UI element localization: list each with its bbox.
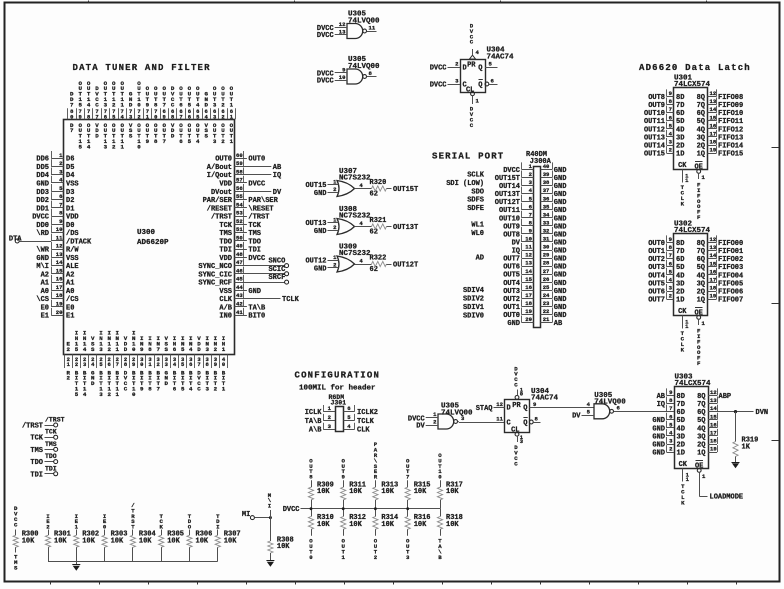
svg-text:A0: A0 <box>66 288 74 296</box>
J300A pin 19 (OUT0) <box>503 308 533 321</box>
svg-text:12: 12 <box>710 90 717 97</box>
J300A pin 33 (GND) <box>541 219 567 232</box>
svg-text:3: 3 <box>104 143 108 150</box>
U305D pin 4 input <box>587 401 591 408</box>
svg-text:/CS: /CS <box>66 296 79 304</box>
svg-text:Q: Q <box>478 65 482 73</box>
svg-text:0: 0 <box>520 391 523 398</box>
svg-text:17: 17 <box>710 430 717 437</box>
svg-text:10K: 10K <box>224 537 237 545</box>
svg-text:14: 14 <box>56 259 63 266</box>
svg-text:3: 3 <box>205 385 209 392</box>
svg-text:6D: 6D <box>676 110 684 118</box>
svg-text:10K: 10K <box>414 521 427 529</box>
U300 pin 25 (IN13) <box>99 330 103 398</box>
svg-text:OUT9: OUT9 <box>503 223 520 231</box>
svg-text:6Q: 6Q <box>697 110 705 118</box>
svg-text:ALE: ALE <box>66 263 79 271</box>
svg-text:5: 5 <box>75 391 79 398</box>
svg-text:D4: D4 <box>66 172 74 180</box>
svg-text:SCIC: SCIC <box>268 266 285 274</box>
U304B pin 9 (Q) output wire to U305D <box>529 401 594 408</box>
svg-text:A/Bout: A/Bout <box>207 164 232 172</box>
svg-text:TDI: TDI <box>248 247 261 255</box>
svg-text:FIFO03: FIFO03 <box>718 264 743 272</box>
svg-text:SERIAL PORT: SERIAL PORT <box>432 152 504 162</box>
svg-text:40: 40 <box>543 163 550 170</box>
gate U308 NC7SZ32 <box>337 206 371 235</box>
svg-text:T: T <box>131 524 135 531</box>
svg-text:6: 6 <box>179 101 183 108</box>
svg-text:2: 2 <box>221 101 225 108</box>
svg-text:F: F <box>697 360 701 367</box>
svg-text:8Q: 8Q <box>697 94 705 102</box>
svg-text:4: 4 <box>196 101 200 108</box>
J300A pin 21 (AB) <box>541 316 564 329</box>
U305D pin 6 output wire to U303 6D <box>614 404 667 411</box>
svg-text:OE: OE <box>694 163 702 171</box>
J300A pin 35 (GND) <box>541 203 567 216</box>
U304 pin 4 (PR) from DVCC <box>470 23 480 60</box>
J300A pin 37 (GND) <box>541 187 567 200</box>
J300A pin 13 (OUT6) <box>503 259 533 272</box>
svg-text:36: 36 <box>543 195 550 202</box>
svg-text:5D: 5D <box>676 264 684 272</box>
svg-text:1: 1 <box>116 391 120 398</box>
U300 bottom pin separators <box>65 354 228 368</box>
svg-text:0: 0 <box>137 143 141 150</box>
svg-text:4: 4 <box>189 346 193 353</box>
U303 pin 16 (4Q) stub <box>697 421 717 434</box>
svg-text:18: 18 <box>710 139 717 146</box>
svg-text:7: 7 <box>179 113 182 120</box>
svg-text:4D: 4D <box>676 272 684 280</box>
svg-text:K: K <box>681 346 685 353</box>
svg-text:18: 18 <box>525 300 532 307</box>
svg-text:22: 22 <box>543 308 550 315</box>
J300A pin 30 (GND) <box>541 243 567 256</box>
svg-text:38: 38 <box>543 179 550 186</box>
svg-text:F: F <box>697 214 701 221</box>
U300 pin 36 (IN4) <box>189 335 193 392</box>
svg-text:15: 15 <box>525 276 532 283</box>
svg-text:OUT4: OUT4 <box>648 272 665 280</box>
J300A pin 28 (GND) <box>541 259 567 272</box>
U300 pin 41 (IN0) <box>219 308 265 321</box>
svg-text:OUT15: OUT15 <box>644 151 665 159</box>
resistor R308 10K (M\I) <box>268 492 294 561</box>
svg-text:GND: GND <box>554 240 567 248</box>
resistor R311 10K (OUT9 top) <box>341 457 366 508</box>
wire DTA to U300 pin 11 <box>19 241 51 243</box>
svg-text:31: 31 <box>543 236 550 243</box>
U300 pin 75 (OUT12) <box>112 80 116 150</box>
svg-text:9: 9 <box>140 346 144 353</box>
svg-text:19: 19 <box>525 308 532 315</box>
U300 pin 67 (OUT6) <box>179 85 183 145</box>
svg-text:37: 37 <box>543 187 550 194</box>
J300A pin 5 (OUT12T) <box>495 195 534 208</box>
svg-text:GND: GND <box>652 433 665 441</box>
J300A pin 27 (GND) <box>541 267 567 280</box>
svg-text:GND: GND <box>554 248 567 256</box>
svg-text:6: 6 <box>189 361 192 368</box>
svg-text:15: 15 <box>710 114 717 121</box>
svg-text:AB: AB <box>554 320 563 328</box>
svg-text:GND: GND <box>554 215 567 223</box>
U308 pin 2 (GND) <box>314 224 339 236</box>
U302 pin 8 (7D) OUT1 <box>648 244 684 257</box>
J300A pin 26 (GND) <box>541 275 567 288</box>
svg-text:6: 6 <box>173 346 177 353</box>
svg-text:SDIV2: SDIV2 <box>463 296 484 304</box>
svg-text:2D: 2D <box>677 442 685 450</box>
J300A pin 8 (OUT9) <box>503 219 533 232</box>
svg-text:TA\B: TA\B <box>305 418 323 426</box>
U300 pin 33 (VSS) <box>165 335 169 387</box>
J300A pin 15 (OUT4) <box>503 275 533 288</box>
svg-text:GND: GND <box>554 272 567 280</box>
svg-text:TCK: TCK <box>45 429 57 436</box>
svg-text:OUT4: OUT4 <box>503 280 520 288</box>
svg-text:GND: GND <box>554 207 567 215</box>
svg-text:4: 4 <box>196 138 200 145</box>
svg-text:1: 1 <box>120 143 124 150</box>
J300A pin 23 (GND) <box>541 299 567 312</box>
wire DVN junction down <box>735 412 737 442</box>
flip-flop U304 74AC74 (top) <box>461 47 515 95</box>
svg-text:CK: CK <box>678 162 687 170</box>
U300 pin 15 (A2) <box>41 267 75 280</box>
svg-text:TCK: TCK <box>248 222 261 230</box>
J300A pin 22 (GND) <box>541 308 567 321</box>
U304 pin 1 (CL) from DVCC <box>470 92 480 129</box>
svg-text:17: 17 <box>710 277 717 284</box>
J300A pin 10 (DV) <box>512 235 534 248</box>
U304B pin 12 (D) from STAQ <box>494 401 505 408</box>
svg-text:/DS: /DS <box>66 230 79 238</box>
U308 pin 4 output wire <box>355 220 372 227</box>
U300 pin 79 (OUT15) <box>78 80 82 150</box>
svg-text:1: 1 <box>230 138 234 145</box>
svg-text:BIT0: BIT0 <box>248 313 265 321</box>
svg-text:1D: 1D <box>677 450 685 458</box>
svg-text:23: 23 <box>543 300 550 307</box>
U300 pin 68 (VDD) <box>171 85 175 139</box>
flip-flop U304 74AC74 (config) <box>505 388 559 435</box>
svg-text:6: 6 <box>108 361 111 368</box>
svg-text:DVCC: DVCC <box>430 65 447 73</box>
svg-text:19: 19 <box>56 301 63 308</box>
U300 pin 69 (OUT7) <box>162 85 166 145</box>
svg-text:SDFE: SDFE <box>467 205 484 213</box>
op-amp U300 AD6620P body <box>64 120 235 355</box>
svg-text:SRCF: SRCF <box>268 274 285 282</box>
node OUT12T <box>393 262 418 270</box>
svg-text:60: 60 <box>236 152 243 159</box>
U300 pin 23 (IN14) <box>83 330 87 398</box>
svg-text:CLK: CLK <box>219 296 232 304</box>
svg-text:28: 28 <box>543 260 550 267</box>
U302 pin 7 (6D) OUT2 <box>648 252 684 265</box>
svg-text:9: 9 <box>79 113 82 120</box>
svg-text:DVCC: DVCC <box>317 78 334 86</box>
U303 pin 4 (3D) GND <box>652 429 685 442</box>
U301 pin 11 (CK) to TCLK <box>681 170 690 208</box>
svg-text:DD1: DD1 <box>36 205 49 213</box>
svg-text:30: 30 <box>543 244 550 251</box>
svg-text:PAR/SER: PAR/SER <box>203 197 233 205</box>
svg-text:46: 46 <box>236 268 243 275</box>
U301 pin 8 (7D) OUT9 <box>648 98 684 111</box>
svg-text:D: D <box>129 101 133 108</box>
svg-text:LOADMODE: LOADMODE <box>710 494 744 502</box>
resistor R300 10K (DVCC to TMS) <box>13 505 38 571</box>
svg-text:TDO: TDO <box>45 453 57 460</box>
svg-text:SCLK: SCLK <box>467 172 485 180</box>
svg-text:OUT13T: OUT13T <box>393 224 418 232</box>
svg-text:E1: E1 <box>66 313 74 321</box>
svg-text:2: 2 <box>214 346 218 353</box>
U300 pin 54 (/RESET) <box>207 201 274 214</box>
svg-text:58: 58 <box>236 168 243 175</box>
connector J300A R40DM body <box>526 151 552 328</box>
svg-text:11: 11 <box>496 415 503 422</box>
J300A pin 11 (IQ) <box>512 243 534 256</box>
J300A pin 25 (GND) <box>541 283 567 296</box>
svg-text:U300: U300 <box>137 229 156 237</box>
svg-text:33: 33 <box>543 219 550 226</box>
resistor R303 10K (IE0) <box>102 513 127 561</box>
U300 pin 8 (VDD) <box>32 209 78 222</box>
svg-text:5: 5 <box>188 138 192 145</box>
svg-text:OUT5: OUT5 <box>503 272 520 280</box>
test point TDI <box>30 465 57 479</box>
U300 pin 40 (IN1) <box>222 335 226 392</box>
svg-text:DVCC: DVCC <box>503 167 520 175</box>
svg-text:TDI: TDI <box>30 471 43 479</box>
gate U305 74LVQ00 (pins 4,5->6) <box>594 392 626 419</box>
U300 pin 42 (A/B) <box>219 300 266 313</box>
U304 pin 3 (C) from DVCC <box>430 77 460 89</box>
U303 pin 14 (6Q) stub <box>697 405 717 418</box>
svg-text:S: S <box>204 133 208 140</box>
svg-text:DVN: DVN <box>756 409 769 417</box>
svg-text:1: 1 <box>341 554 345 561</box>
svg-text:7: 7 <box>406 474 410 481</box>
svg-text:OUT0: OUT0 <box>248 156 265 164</box>
gate U307 NC7SZ32 <box>337 168 371 197</box>
svg-text:GND: GND <box>554 183 567 191</box>
svg-text:OUT9: OUT9 <box>648 102 665 110</box>
svg-text:DVout: DVout <box>211 189 232 197</box>
svg-text:FIFO15: FIFO15 <box>718 151 743 159</box>
svg-text:/TRST: /TRST <box>45 417 65 424</box>
svg-text:10: 10 <box>339 74 346 81</box>
svg-text:IQ: IQ <box>512 248 520 256</box>
svg-text:13: 13 <box>339 28 346 35</box>
U300 pin 49 (TDI) <box>219 242 261 255</box>
svg-text:GND: GND <box>554 264 567 272</box>
svg-text:3: 3 <box>213 101 217 108</box>
J300A pin 4 (OUT13T) <box>495 187 534 200</box>
svg-text:12: 12 <box>710 389 717 396</box>
U302 pin 1 (OE) to FIFOOFF <box>697 316 706 368</box>
svg-text:15: 15 <box>710 260 717 267</box>
svg-text:D5: D5 <box>66 164 74 172</box>
svg-text:8: 8 <box>154 101 158 108</box>
J300A pin 1 (DVCC) <box>503 162 533 175</box>
resistor R316 10K (OUT3 bottom) <box>405 509 430 561</box>
svg-text:OUT5: OUT5 <box>648 280 665 288</box>
svg-text:9: 9 <box>341 474 345 481</box>
U302 pin 12 (8Q) FIFO00 <box>697 235 744 248</box>
svg-text:SDIV4: SDIV4 <box>463 287 484 295</box>
svg-text:10K: 10K <box>381 488 394 496</box>
svg-text:D: D <box>95 133 99 140</box>
svg-text:51: 51 <box>236 226 243 233</box>
border zone ticks right <box>772 148 780 441</box>
U303 pin 19 (1Q) stub <box>697 445 717 458</box>
svg-text:53: 53 <box>236 210 243 217</box>
svg-text:17: 17 <box>710 131 717 138</box>
svg-text:CK: CK <box>679 461 688 469</box>
svg-text:10K: 10K <box>196 537 209 545</box>
U303 pin 18 (2Q) stub <box>697 437 717 450</box>
svg-text:DVCC: DVCC <box>248 255 265 263</box>
svg-text:J301: J301 <box>331 400 347 407</box>
svg-text:/TRST: /TRST <box>211 214 232 222</box>
svg-text:9: 9 <box>132 361 135 368</box>
svg-text:62: 62 <box>370 228 378 236</box>
svg-text:4: 4 <box>87 101 91 108</box>
svg-text:6D: 6D <box>676 256 684 264</box>
svg-text:1Q: 1Q <box>697 151 705 159</box>
svg-text:4: 4 <box>83 391 87 398</box>
svg-text:S: S <box>129 133 133 140</box>
svg-text:I/Qout: I/Qout <box>207 172 232 180</box>
svg-text:1Q: 1Q <box>697 450 705 458</box>
svg-text:Q: Q <box>478 82 482 90</box>
svg-text:3Q: 3Q <box>697 134 705 142</box>
svg-text:0: 0 <box>132 346 136 353</box>
U303 pin 13 (7Q) stub <box>697 397 717 410</box>
svg-text:OUT0: OUT0 <box>215 156 232 164</box>
U300 pin 13 (VSS) <box>36 250 78 263</box>
svg-text:D: D <box>507 405 511 413</box>
svg-text:10K: 10K <box>167 537 180 545</box>
gate U305 74LVQ00 (pins 12,13->11) <box>317 11 380 41</box>
svg-text:FIFO05: FIFO05 <box>718 280 743 288</box>
svg-text:15: 15 <box>710 413 717 420</box>
svg-text:4: 4 <box>189 385 193 392</box>
U300 pin 48 (VDD) <box>219 250 265 263</box>
title CONFIGURATION <box>295 371 381 381</box>
svg-text:10K: 10K <box>82 537 95 545</box>
svg-text:7: 7 <box>162 138 166 145</box>
svg-text:2: 2 <box>214 385 218 392</box>
svg-text:5Q: 5Q <box>697 417 705 425</box>
svg-text:VDD: VDD <box>66 214 79 222</box>
gate U305 74LVQ00 (pins 9,10->8) <box>317 56 380 85</box>
svg-text:R: R <box>374 474 378 481</box>
U304B pin 11 (C) <box>496 415 503 422</box>
svg-text:GND: GND <box>314 228 327 236</box>
border zone ticks top <box>89 1 707 3</box>
svg-text:9: 9 <box>146 138 150 145</box>
svg-text:\RESET: \RESET <box>248 205 273 213</box>
svg-text:10K: 10K <box>349 521 362 529</box>
U300 pin 57 (VDD) <box>219 176 265 189</box>
svg-text:1: 1 <box>230 101 234 108</box>
svg-text:GND: GND <box>554 231 567 239</box>
svg-text:8D: 8D <box>677 393 685 401</box>
svg-text:27: 27 <box>543 268 550 275</box>
U300 pin 10 (/DS) <box>36 225 78 238</box>
svg-text:1D: 1D <box>676 297 684 305</box>
U301 pin 14 (6Q) FIFO10 <box>697 106 744 119</box>
svg-text:A1: A1 <box>66 280 74 288</box>
svg-text:AB: AB <box>273 164 282 172</box>
svg-text:SDIV1: SDIV1 <box>463 304 484 312</box>
svg-text:E0: E0 <box>41 304 49 312</box>
svg-text:7: 7 <box>70 101 74 108</box>
svg-text:DATA TUNER AND FILTER: DATA TUNER AND FILTER <box>73 63 211 73</box>
svg-text:D1: D1 <box>66 205 74 213</box>
svg-text:12: 12 <box>496 401 503 408</box>
U300 pin 26 (IN12) <box>107 330 111 398</box>
svg-text:OUT14: OUT14 <box>644 143 665 151</box>
svg-text:TMS: TMS <box>219 230 232 238</box>
svg-text:M\I: M\I <box>36 263 49 271</box>
svg-text:K: K <box>681 200 685 207</box>
svg-text:TDO: TDO <box>248 238 261 246</box>
svg-text:C: C <box>95 101 99 108</box>
U304 pin 2 (D) from DVCC <box>430 60 460 72</box>
U300 pin 16 (A1) <box>41 275 75 288</box>
J301 pin 6 (ICLK2) <box>344 405 379 417</box>
svg-text:D2: D2 <box>66 197 74 205</box>
svg-text:OUT8: OUT8 <box>503 231 520 239</box>
svg-text:\WR: \WR <box>36 247 49 255</box>
resistor R307 10K (TDI) <box>215 513 240 561</box>
U305D pin 5 (DV) <box>572 408 594 420</box>
svg-text:7: 7 <box>70 127 74 134</box>
U300 pin 2 (D5) <box>36 159 74 172</box>
svg-text:13: 13 <box>710 98 717 105</box>
svg-text:CONFIGURATION: CONFIGURATION <box>295 371 381 381</box>
U302 pin 17 (3Q) FIFO05 <box>697 276 744 289</box>
latch U302 74LCX574 body <box>674 220 711 317</box>
U300 pin 17 (A0) <box>41 283 75 296</box>
U300 pin 62 (OUT2) <box>221 85 225 145</box>
svg-text:AD6620P: AD6620P <box>137 239 169 247</box>
U300 pin 21 (E2) <box>67 340 71 381</box>
svg-text:2: 2 <box>112 101 116 108</box>
U307 pin 2 (GND) <box>314 186 339 198</box>
U300 pin 22 (IN15) <box>75 330 79 398</box>
title SERIAL PORT <box>432 152 504 162</box>
svg-text:8: 8 <box>148 346 152 353</box>
svg-text:49: 49 <box>236 243 243 250</box>
U301 pin 6 (5D) OUT11 <box>644 114 684 127</box>
U300 pin 7 (D1) <box>36 201 74 214</box>
svg-text:6: 6 <box>104 113 107 120</box>
J301 pin 4 (CLK) <box>344 423 371 435</box>
J300A pin 31 (GND) <box>541 235 567 248</box>
svg-text:3D: 3D <box>677 433 685 441</box>
U300 pin 65 (OUT4) <box>196 85 200 145</box>
